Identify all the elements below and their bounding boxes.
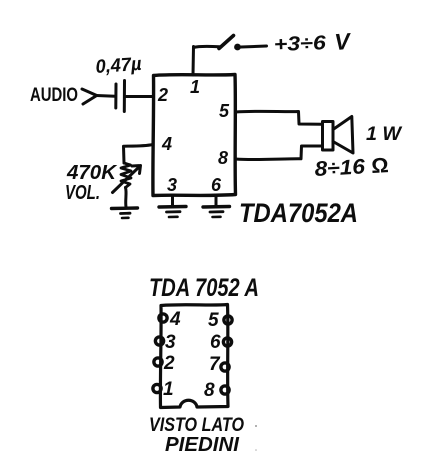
pinout IC body with notch	[153, 305, 232, 408]
svg-text:1: 1	[190, 77, 200, 97]
pin circle 3	[155, 337, 163, 345]
switch S1 blade	[219, 36, 234, 49]
svg-text:AUDIO: AUDIO	[30, 85, 78, 106]
svg-text:3: 3	[165, 332, 176, 353]
wire pin1 vertical	[192, 47, 196, 76]
wire top horizontal to switch	[194, 46, 220, 47]
svg-text:TDA7052A: TDA7052A	[239, 198, 358, 228]
potentiometer R1 arrow	[113, 166, 141, 193]
svg-text:4: 4	[161, 134, 172, 154]
op-amp IC U1 TDA7052A body	[153, 75, 236, 196]
svg-text:VOL.: VOL.	[65, 182, 100, 204]
wire capacitor to pin2	[125, 95, 153, 98]
wire audio chevron input	[82, 89, 97, 104]
svg-text:8÷16 Ω: 8÷16 Ω	[314, 154, 389, 181]
svg-text:6: 6	[211, 175, 222, 195]
pin circle 7	[221, 363, 229, 371]
pin circle 1	[153, 384, 161, 392]
switch S1 contact dot	[234, 44, 241, 51]
wire pin3 to ground	[171, 196, 174, 206]
svg-text:2: 2	[157, 85, 168, 105]
pin circle 2	[154, 358, 162, 366]
svg-text:470K: 470K	[66, 162, 118, 184]
ground pin6	[203, 205, 230, 209]
speaker LS1 cone	[333, 117, 353, 154]
paper speck	[255, 449, 257, 451]
paper speck	[255, 425, 257, 427]
svg-text:VISTO LATO: VISTO LATO	[149, 415, 244, 436]
svg-text:6: 6	[210, 332, 221, 353]
wire pin5 to speaker	[236, 111, 323, 124]
svg-text:3: 3	[167, 175, 177, 195]
ground pin3	[159, 205, 186, 209]
svg-text:PIEDINI: PIEDINI	[165, 434, 239, 456]
potentiometer R1 zigzag	[121, 163, 131, 188]
capacitor C1 left plate	[114, 84, 117, 108]
pin circle 8	[221, 386, 229, 394]
svg-text:TDA 7052 A: TDA 7052 A	[149, 274, 259, 302]
pin circle 4	[159, 314, 167, 322]
svg-text:2: 2	[163, 353, 175, 374]
ground pot	[112, 206, 138, 210]
pin circle 5	[224, 316, 232, 324]
svg-text:5: 5	[219, 101, 230, 121]
wire switch to supply label	[241, 46, 267, 47]
capacitor C1 right plate	[123, 81, 126, 112]
wire pin6 to ground	[215, 196, 218, 206]
wire pin8 to speaker	[236, 146, 323, 160]
svg-text:+3÷6: +3÷6	[273, 32, 327, 56]
svg-text:8: 8	[204, 380, 215, 401]
svg-text:4: 4	[169, 309, 181, 330]
svg-text:0,47µ: 0,47µ	[95, 54, 142, 78]
wire chevron to capacitor	[97, 94, 116, 98]
pin circle 6	[223, 338, 231, 346]
speaker LS1 magnet	[323, 122, 334, 151]
svg-text:5: 5	[208, 310, 219, 331]
svg-text:7: 7	[209, 354, 221, 375]
svg-text:1: 1	[163, 379, 174, 400]
svg-text:1 W: 1 W	[366, 124, 403, 145]
wire potentiometer to ground	[124, 188, 128, 208]
wire pin4 to potentiometer	[124, 145, 154, 164]
svg-text:8: 8	[218, 148, 228, 168]
label +3÷6 V	[273, 28, 352, 56]
